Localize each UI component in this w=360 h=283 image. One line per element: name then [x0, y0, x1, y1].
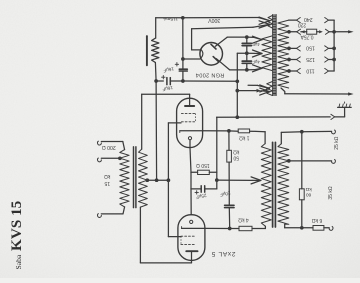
resistor R5 60k: [299, 189, 304, 200]
T1 heater winding (output tubes): [267, 82, 273, 96]
tap 150 junction: [287, 47, 291, 51]
T2 secondary bottom to bottom bus: [139, 207, 141, 263]
tap row 125 fork left: [297, 57, 301, 60]
anode plate 2 V3: [213, 57, 218, 62]
C1 top lead: [182, 59, 184, 69]
selector bus vertical: [333, 20, 335, 71]
junction node B+ top: [181, 16, 185, 20]
junction row B / bleeder: [300, 130, 304, 134]
mains arrow top: [348, 30, 354, 33]
V1 cathode line: [180, 130, 203, 132]
solid arrow heater B: [257, 89, 262, 93]
tap row 240 fork left: [297, 18, 301, 21]
50k bottom lead: [228, 162, 230, 205]
arrow 300V into mains transformer filament winding: [259, 18, 270, 21]
50k top lead: [228, 131, 230, 150]
svg-text:300V: 300V: [208, 17, 221, 23]
junction 20uF / 4k row: [228, 227, 232, 231]
V2 cathode wire right: [205, 227, 230, 229]
heater wire A: [248, 84, 257, 86]
junction heater B takeoff: [235, 89, 239, 93]
svg-text:4µF: 4µF: [252, 42, 260, 47]
C4 top lead: [246, 53, 248, 61]
tap row 220 wire right: [329, 31, 334, 33]
heater wire B: [237, 90, 256, 92]
svg-text:6 kΩ: 6 kΩ: [312, 217, 323, 223]
R4 right wire: [252, 228, 265, 230]
wire C2 to ground junction: [170, 80, 183, 82]
capacitor C6 20uF plates: [225, 204, 234, 206]
anode 1 lead: [215, 37, 227, 46]
choke core bar: [146, 36, 148, 65]
V1 anode lead: [189, 94, 191, 106]
tap row 150 fork right: [325, 46, 329, 49]
R2 right wire: [209, 171, 217, 173]
arrow filament B into winding: [253, 24, 270, 27]
V2 anode plate: [186, 250, 197, 252]
V1 heater circle: [188, 137, 191, 140]
anode2 wire to caps: [230, 69, 247, 71]
R6 right wire: [324, 227, 329, 229]
T1 primary bottom lead: [281, 88, 285, 94]
junction input tap: [118, 156, 122, 160]
plus sign C5: [195, 191, 198, 193]
bottom bus wire: [140, 262, 191, 264]
row B hook: [332, 130, 336, 134]
arrow heater B tail: [261, 90, 269, 93]
svg-text:kΩ: kΩ: [233, 149, 240, 155]
wire cathode row to R1: [229, 130, 238, 132]
junction choke bottom / screen feed: [154, 79, 158, 83]
bus end fork: [331, 114, 335, 117]
svg-text:0,75A: 0,75A: [300, 33, 314, 39]
V2 grid g2 dashes: [181, 244, 183, 246]
wire ground run to right: [183, 80, 237, 82]
capacitor C4 4uF plates: [242, 60, 251, 62]
plug arrow right: [317, 31, 319, 33]
svg-text:1 kΩ: 1 kΩ: [239, 134, 250, 140]
cathode rail down-left: [190, 172, 192, 189]
plus sign C1: [175, 63, 178, 65]
junction bottom row: [300, 226, 304, 230]
tap row 240 fork right: [325, 18, 329, 21]
wire filament B to transformer: [192, 27, 253, 29]
junction screen feed to tap wire: [155, 178, 159, 182]
T2 primary winding: [120, 150, 129, 207]
arrow CT to HV winding: [247, 52, 262, 54]
resistor R6 6k: [313, 226, 324, 231]
arrow anode2 to HV winding: [247, 69, 255, 71]
junction grid bus: [167, 178, 171, 182]
tap wire: [147, 179, 168, 181]
junction selector bus 125: [332, 58, 336, 62]
junction filament B+ takeoff: [181, 57, 185, 61]
rectifier V3 RGN2004 envelope: [200, 43, 223, 66]
resistor R1 1k: [238, 129, 249, 133]
junction cathode / 50k: [227, 129, 231, 133]
tap row 220 fork right: [325, 29, 329, 32]
T3 primary winding: [261, 144, 271, 227]
capacitor C2 16uF (series plates): [166, 78, 168, 85]
capacitor C5 25uF plates: [200, 186, 202, 192]
wire filament pin B horizontal: [192, 49, 201, 51]
capacitor C1 16uF plates: [179, 68, 187, 70]
T3 primary top lead: [264, 132, 266, 144]
V1 anode wire down: [141, 94, 143, 149]
input terminal 3 hook: [98, 213, 102, 217]
chassis bus wire: [217, 116, 331, 118]
tap row 220 wire: [289, 31, 297, 33]
svg-text:15: 15: [104, 180, 110, 186]
choke L1 115mA zigzag: [152, 38, 159, 62]
earth rail vertical: [216, 117, 218, 189]
T2 secondary winding: [139, 149, 148, 207]
V1 heater lead: [189, 140, 191, 148]
junction cap B bottom: [245, 68, 249, 72]
mains wire bottom: [285, 93, 350, 95]
tube V2 envelope: [178, 215, 205, 261]
row B wire: [281, 131, 302, 134]
V2 top lead: [190, 189, 192, 215]
resistor R4 4k: [239, 226, 252, 230]
svg-text:115mA: 115mA: [162, 15, 178, 21]
plug arrow left: [301, 30, 305, 33]
T1 filament winding (rectifier): [268, 16, 272, 29]
screen feed vertical: [155, 81, 158, 180]
junction C1 bottom: [181, 79, 185, 83]
svg-text:240: 240: [304, 16, 313, 22]
T3 secondary winding: [278, 144, 289, 225]
svg-text:150: 150: [306, 45, 315, 51]
earth lead: [335, 116, 345, 118]
junction selector bus 150: [332, 47, 336, 51]
C3 top lead: [246, 37, 248, 43]
tap row 110 fork right: [325, 68, 329, 71]
anode1 wire to caps: [227, 36, 247, 38]
svg-text:2xAL 5: 2xAL 5: [211, 250, 235, 257]
V1 grid tie dash: [195, 113, 197, 121]
wire screen node to cap C2: [156, 80, 163, 82]
tap row 220 fork left: [297, 29, 301, 32]
bottom row hook: [329, 226, 333, 230]
tap row 110 fork left: [297, 68, 301, 71]
svg-text:200 Ω: 200 Ω: [102, 144, 116, 150]
V2 grid wire: [168, 236, 181, 238]
earth symbol: [338, 106, 352, 108]
V1 grid g2 dashes: [181, 112, 183, 114]
V1 grid wire: [168, 122, 181, 124]
tap row 150 wire: [289, 47, 297, 49]
junction rail to output tap wire: [215, 178, 219, 182]
tap row 150 wire right: [329, 47, 335, 49]
resistor R2 150 Ohm: [198, 170, 210, 174]
svg-text:125: 125: [306, 56, 315, 62]
T3 secondary top lead: [280, 132, 282, 143]
C6 bottom lead: [228, 208, 230, 229]
tap row hook: [332, 159, 336, 163]
V1 anode plate: [185, 105, 194, 107]
arrow heater A: [260, 85, 270, 89]
svg-text:kΩ: kΩ: [305, 186, 311, 192]
tap row 240 wire right: [329, 19, 335, 21]
V2 heater circle: [190, 220, 193, 223]
T3 core: [272, 142, 274, 227]
anode plate 1 V3: [211, 44, 216, 49]
T1 core: [272, 15, 274, 96]
wire to output transformer tap: [217, 179, 252, 181]
bleeder vertical: [301, 132, 303, 189]
bottom row wire: [285, 227, 313, 229]
V2 anode to bottom bus: [191, 260, 193, 263]
anode 2 lead: [216, 59, 229, 70]
tap row 110 wire: [289, 70, 297, 72]
resistor R3 50k: [227, 150, 232, 162]
junction secondary tap: [145, 178, 149, 182]
tap row 125 wire right: [329, 59, 335, 61]
tube V1 envelope: [177, 98, 203, 147]
svg-text:60: 60: [306, 192, 312, 198]
svg-text:35 kΩ: 35 kΩ: [328, 186, 334, 199]
capacitor C3 4uF plates: [242, 42, 251, 44]
tap row 150 fork left: [297, 46, 301, 49]
V2 anode lead: [191, 251, 193, 260]
fuse 0.75A body: [307, 29, 317, 34]
filament arc V3: [200, 49, 203, 59]
arrow anode1 to HV winding: [247, 36, 254, 38]
vertical ground drop to chassis bus: [236, 81, 238, 117]
V1 anode wire left: [142, 93, 190, 95]
tap 125 junction: [287, 58, 291, 62]
bleeder lower lead: [301, 200, 303, 228]
choke top lead: [155, 18, 157, 38]
wire B+ 300V top rail: [156, 17, 183, 19]
V1 cathode wire right: [203, 130, 229, 132]
tap row 110 wire right: [329, 70, 335, 72]
junction HV center tap: [245, 51, 249, 55]
tap row 125 fork right: [325, 57, 329, 60]
vertical ground drop from CT: [236, 53, 238, 81]
V2 grid g1 dashes: [181, 235, 183, 237]
input terminal 2 wire: [101, 157, 120, 159]
junction cap A top: [245, 35, 249, 39]
junction ground drop on bus: [235, 115, 239, 119]
input terminal 1 hook: [98, 141, 102, 145]
arrow into output primary: [252, 179, 261, 181]
C1 bottom lead: [182, 71, 184, 81]
input terminal 2 hook: [98, 158, 102, 162]
tap 110 junction: [287, 69, 291, 73]
C4 bottom lead: [246, 63, 248, 70]
tap 220 junction: [287, 30, 291, 34]
C5 left wire: [191, 188, 201, 190]
svg-text:50: 50: [233, 154, 239, 160]
svg-text:4 kΩ: 4 kΩ: [238, 217, 249, 223]
T1 primary winding: [278, 20, 289, 88]
V1 cathode to resistor: [190, 148, 191, 173]
T2 core: [133, 147, 135, 208]
tap row 125 wire: [289, 59, 297, 61]
svg-text:110: 110: [306, 67, 314, 73]
svg-text:25 kΩ: 25 kΩ: [334, 136, 340, 149]
vertical B+ bus: [182, 18, 184, 59]
junction selector bus 220: [332, 30, 336, 34]
mains wire top: [334, 31, 348, 33]
V2 grid tie dash: [180, 236, 182, 244]
junction ground drop / cap ground: [235, 79, 239, 83]
svg-text:220: 220: [298, 22, 307, 28]
svg-text:4µF: 4µF: [252, 59, 260, 64]
C5 right wire: [205, 188, 217, 190]
R1 right wire: [250, 130, 266, 133]
tap row 240 wire left: [289, 19, 297, 21]
input terminal 1 wire: [101, 141, 123, 143]
wire filament pin A: [183, 58, 200, 60]
C3 bottom lead: [246, 46, 248, 54]
wire filament pin B vertical: [191, 29, 193, 50]
wire CT left: [237, 52, 247, 54]
secondary tap wire: [289, 160, 332, 162]
T3 secondary bottom lead: [284, 224, 286, 228]
plus sign C2: [162, 76, 165, 78]
V2 cathode line: [182, 227, 205, 229]
svg-text:RGN 2004: RGN 2004: [196, 72, 225, 78]
grid bus vertical: [167, 123, 169, 237]
svg-text:kΩ: kΩ: [104, 173, 111, 179]
T1 HV winding: [262, 36, 272, 71]
input terminal 3 wire: [101, 213, 123, 215]
junction secondary tap 2: [287, 159, 291, 163]
V1 grid g1 dashes: [181, 121, 183, 123]
choke bottom lead: [154, 63, 157, 82]
svg-text:150 Ω: 150 Ω: [196, 162, 210, 168]
wire to R4: [230, 228, 239, 230]
mains arrow bottom: [348, 92, 354, 95]
